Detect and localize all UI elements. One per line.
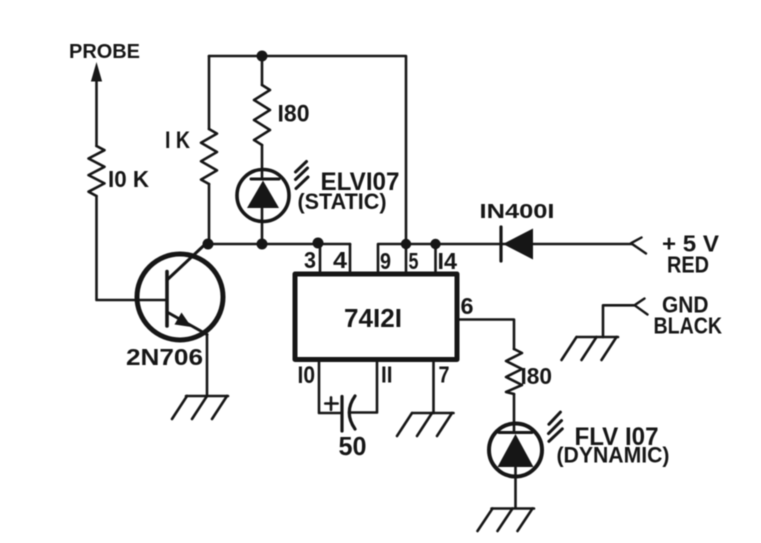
svg-text:5: 5 xyxy=(409,248,419,274)
LED D1 static xyxy=(237,170,289,245)
wire pin 10 to capacitor xyxy=(319,361,342,413)
capacitor C1 50uF xyxy=(325,396,355,431)
svg-text:7: 7 xyxy=(439,362,450,388)
wire probe to transistor base xyxy=(97,196,167,300)
transistor Q1 2N706 xyxy=(137,243,223,340)
LED D2 dynamic xyxy=(489,424,542,509)
svg-text:4: 4 xyxy=(333,247,347,273)
wire GND lead xyxy=(603,305,635,337)
wire right bus to +5V xyxy=(378,244,632,272)
D1 light rays xyxy=(296,162,309,189)
svg-text:74I2I: 74I2I xyxy=(344,303,402,333)
wire pin 7 to ground xyxy=(432,361,435,413)
resistor R3 1K xyxy=(201,56,217,244)
wire pin 4 stub xyxy=(349,244,352,272)
node dot pin5 / top rail junction xyxy=(401,239,411,249)
ground D2 xyxy=(478,509,535,532)
svg-text:(STATIC): (STATIC) xyxy=(298,189,387,214)
svg-text:(DYNAMIC): (DYNAMIC) xyxy=(557,443,670,468)
wire pin 6 to R4 xyxy=(457,320,514,350)
resistor R4 180 xyxy=(506,349,522,432)
ground pin 7 xyxy=(397,413,454,436)
svg-text:I4: I4 xyxy=(438,248,458,274)
svg-text:II: II xyxy=(381,362,393,388)
wire left bus xyxy=(208,243,350,246)
node dot collector junction xyxy=(203,239,214,250)
svg-text:9: 9 xyxy=(380,248,391,274)
svg-text:3: 3 xyxy=(304,247,316,273)
D2 light rays xyxy=(549,412,563,441)
op-amp U1 74121 body xyxy=(295,274,457,360)
node dot D1 junction xyxy=(257,239,268,250)
svg-text:I0 K: I0 K xyxy=(108,166,149,192)
ground Q1 emitter xyxy=(172,396,228,419)
svg-text:IN400I: IN400I xyxy=(480,201,555,223)
wire pin 5 stub xyxy=(405,244,408,272)
svg-text:BLACK: BLACK xyxy=(654,313,723,339)
svg-text:6: 6 xyxy=(461,293,474,319)
svg-text:PROBE: PROBE xyxy=(69,41,140,63)
wire pin 14 stub xyxy=(434,244,437,272)
resistor R2 180 xyxy=(254,56,270,179)
wire Q1 emitter to ground xyxy=(206,335,209,397)
node dot top rail / R2 xyxy=(257,51,268,62)
resistor R1 10K xyxy=(89,146,105,196)
node dot pin3 junction xyxy=(313,238,324,249)
connector GND xyxy=(635,299,648,315)
connector +5V xyxy=(631,238,646,254)
svg-text:2N706: 2N706 xyxy=(126,344,203,370)
svg-text:I K: I K xyxy=(165,127,191,154)
svg-text:RED: RED xyxy=(667,252,709,278)
node dot pin14 junction xyxy=(430,239,440,249)
svg-text:I80: I80 xyxy=(521,363,553,389)
svg-text:I0: I0 xyxy=(298,362,316,389)
ground GND black xyxy=(562,337,619,360)
diode D3 IN4001 xyxy=(501,227,533,261)
wire pin 3 stub xyxy=(319,244,322,272)
probe arrow xyxy=(91,62,102,146)
wire pin 11 to capacitor xyxy=(351,361,377,413)
svg-text:I80: I80 xyxy=(278,101,310,128)
wire top rail xyxy=(209,56,406,244)
svg-text:50: 50 xyxy=(339,431,367,461)
